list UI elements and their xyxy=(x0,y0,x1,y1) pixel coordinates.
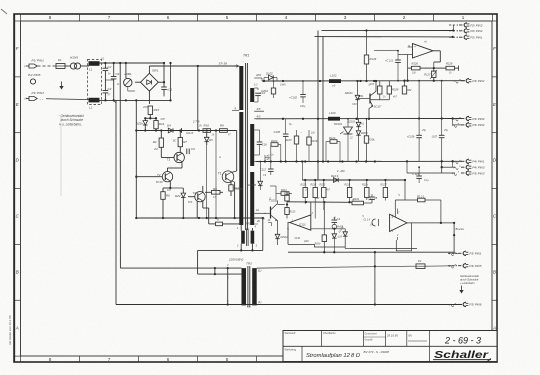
resistor R10 xyxy=(203,124,211,133)
capacitor C16 right of TR1 xyxy=(254,130,267,155)
vertical right x454.1 Bruecke xyxy=(453,223,464,253)
wire bridge left xyxy=(135,63,141,82)
ruler numbers 8-1 xyxy=(49,15,465,362)
wire x454 to P3PIN1 xyxy=(454,252,458,254)
wire opamp plus input xyxy=(408,46,413,48)
transformer TR1 secondary winding a xyxy=(250,88,254,102)
line y180 sub-bus xyxy=(302,179,406,200)
wire TR1 to T102 xyxy=(260,213,266,220)
wire vertical x197.8 xyxy=(197,65,199,131)
wire R8 node down xyxy=(215,131,217,219)
vertical x321.5 top xyxy=(318,31,322,37)
TR2 pin4 wire xyxy=(252,225,257,231)
zener DZ104 xyxy=(356,131,368,162)
resistor R128 xyxy=(434,62,459,71)
taps a6 a5 xyxy=(265,154,270,162)
main bus y161.5 xyxy=(256,160,462,163)
wire R15 to node xyxy=(149,115,151,119)
wire x234.6 T1 emitter to rail xyxy=(231,181,235,218)
wire R7 to T3 xyxy=(179,147,181,153)
wire P1/PIN3 to filter xyxy=(46,99,100,100)
wire x116 top join xyxy=(114,100,116,103)
bottom block wires xyxy=(345,248,417,250)
capacitor C9 xyxy=(180,147,195,154)
connector P1/PIN1 xyxy=(25,58,45,68)
transformer TR3 label xyxy=(246,261,252,265)
capacitor C10 right of TR1 xyxy=(254,88,265,102)
zener DZ102 xyxy=(338,225,347,248)
wire lamp to filter xyxy=(81,65,89,67)
zener DZ119 under column xyxy=(332,229,343,252)
wire bridge bottom to R15 xyxy=(148,91,151,104)
resistor R112 xyxy=(276,189,292,202)
wire T2 collector up xyxy=(168,168,171,173)
line filter L1 dashed box xyxy=(88,60,102,105)
wire bracket P4P3 pin4 xyxy=(451,117,454,125)
zener diode DZ2 xyxy=(169,187,185,219)
opamp2 power pins xyxy=(396,209,398,241)
vertical x314.5 drop xyxy=(314,37,316,40)
vertical x440.9 xyxy=(440,200,442,223)
diode D102 xyxy=(264,72,277,82)
capacitor TB xyxy=(369,194,377,200)
vertical link x214.9 xyxy=(214,268,216,274)
wire y194 stub xyxy=(367,193,372,195)
connector P4/PIN3 xyxy=(454,165,485,170)
long vertical x318 xyxy=(317,31,319,181)
wire R110 top xyxy=(286,192,288,196)
left frame emphasis xyxy=(14,14,16,362)
transformer TR2 core xyxy=(246,229,248,247)
TR3 secondary top (1) xyxy=(257,268,460,272)
connector P3/PIN5 xyxy=(448,264,482,269)
resistor R9 xyxy=(203,186,220,194)
connector P2/PIN1 xyxy=(449,35,483,40)
wire top bus drop to bridge xyxy=(158,62,165,82)
label 27B xyxy=(192,120,200,124)
resistor R14 xyxy=(154,118,165,130)
transformer TR1 core xyxy=(246,63,248,230)
chassis ground arrow xyxy=(59,82,63,90)
note Gehaeusekontakt right xyxy=(460,274,479,285)
resistor R15 xyxy=(148,106,159,115)
label 9 primary tap xyxy=(232,107,239,111)
wire T102 collector to R110R113 node xyxy=(278,201,285,205)
title block grid xyxy=(283,331,497,362)
TR1 tap 4/5 lower wire to L103 bus xyxy=(254,115,261,119)
wire to opamp from T101 xyxy=(374,51,398,55)
wire y173 line xyxy=(407,161,455,173)
long vertical x114 xyxy=(114,63,116,305)
resistor R122 col xyxy=(320,180,327,210)
transistor T2 xyxy=(157,172,173,182)
zener diode DZ103 xyxy=(345,80,360,120)
wire collector node y99.8 xyxy=(371,99,390,101)
thyristor TW101 xyxy=(333,118,352,162)
capacitor C102 xyxy=(289,80,306,103)
wire R9 to T1 xyxy=(220,180,223,192)
transistor T102 xyxy=(264,199,278,224)
wire D5 to rail xyxy=(206,145,208,218)
zener DZ110 xyxy=(275,223,288,245)
top line y37 xyxy=(315,36,454,38)
resistor R101 lower xyxy=(352,197,372,205)
capacitor C2 xyxy=(103,63,112,76)
connector P4/PIN2 xyxy=(454,79,485,84)
transistor T101 xyxy=(357,80,377,110)
bus y268 TR3 right to fuse xyxy=(257,266,411,268)
connector P1/PIN5 xyxy=(28,73,41,84)
resistor R101 under D102 xyxy=(261,80,275,98)
transistor T4 xyxy=(183,191,205,202)
wire T102 col up xyxy=(270,186,276,190)
wire feedback to TR2 pin1 xyxy=(209,218,242,231)
resistor R125 col xyxy=(301,180,308,204)
resistor R120 col xyxy=(362,180,373,201)
resistor R4 xyxy=(153,131,164,148)
long vertical x126 stub xyxy=(125,63,127,100)
wire left drop x298 xyxy=(297,230,299,252)
vertical x441.7 xyxy=(441,80,443,136)
wire x302 bus drop xyxy=(301,162,303,181)
transformer TR1 primary winding xyxy=(239,66,243,225)
wire P1/PIN5 to chassis xyxy=(36,81,62,83)
wire emitter down x369 xyxy=(368,110,370,120)
TR2 pin2 wire xyxy=(236,244,241,251)
drawing frame inner border xyxy=(21,21,493,356)
wire P1/PIN1 to fuse xyxy=(38,65,57,67)
resistor R121 top xyxy=(395,194,441,217)
paper crease line xyxy=(60,116,62,196)
resistor R104 left xyxy=(271,139,281,162)
resistor R129 xyxy=(364,29,376,81)
zener DZ101 xyxy=(346,119,360,130)
resistor R109 xyxy=(307,130,318,162)
opamp IC101 pointing left xyxy=(290,213,314,230)
TR3 pin3 wire xyxy=(198,273,242,280)
wire fuse to lamp xyxy=(65,65,70,67)
wire T2 emitter down xyxy=(163,181,170,192)
resistor R124 xyxy=(326,136,341,162)
wire C2-C3 mid node xyxy=(105,76,113,86)
connector P4/PIN4 xyxy=(454,116,485,121)
component column x334 xyxy=(332,217,344,229)
TR1 tap 4/5 upper xyxy=(254,107,264,111)
wire T4 collector up xyxy=(203,186,210,193)
TR1 tap to T102 line xyxy=(254,208,260,213)
resistor R111 right xyxy=(402,80,412,100)
vertical x262.8 right of TR2 xyxy=(262,218,264,250)
resistor R108 xyxy=(387,81,399,100)
TR3 pin2 wire xyxy=(120,263,241,269)
capacitor C3 xyxy=(103,86,112,100)
opamp N102 xyxy=(390,213,407,238)
wire opamp1 bottom input xyxy=(311,228,345,230)
opamp1 output wire xyxy=(288,223,315,245)
resistor R12 under T1 xyxy=(228,181,240,196)
wire opamp2 out right xyxy=(412,222,456,224)
resistor R7 xyxy=(178,131,187,147)
capacitor C112 xyxy=(260,162,274,176)
resistor R103 xyxy=(285,130,303,162)
resistor R110 xyxy=(284,192,290,205)
wire base T2 from rail xyxy=(136,176,162,178)
corner fold mark top-left xyxy=(1,9,7,14)
wire bridge top to transformer xyxy=(149,66,239,73)
wire T1 collector from rail xyxy=(231,131,237,173)
neon lamp H1N5 xyxy=(70,56,81,70)
capacitor C121 xyxy=(385,50,401,82)
line y202 R110 to R101 xyxy=(287,201,352,204)
wire top bus y63 xyxy=(100,62,165,64)
title Stromlaufplan 128 D xyxy=(306,353,360,359)
wire x440.9 lower drop xyxy=(440,252,442,266)
TR1 lower tap labels xyxy=(254,219,260,224)
transformer TR2 left winding xyxy=(241,231,245,244)
diode D5 xyxy=(204,132,213,145)
wire minus input feedback xyxy=(398,51,413,68)
component value annotations xyxy=(101,58,452,232)
filter choke L1 bottom winding xyxy=(89,98,100,110)
capacitor C4 xyxy=(111,63,120,100)
fuse F1 xyxy=(56,58,65,69)
capacitor C119 xyxy=(413,166,422,187)
transformer TR1 label xyxy=(243,54,249,58)
resistor R113 xyxy=(285,203,296,218)
bottom bus y304.5 xyxy=(116,303,462,305)
wire y167.2 line xyxy=(441,160,455,173)
transformer TR1 secondary winding b xyxy=(250,124,254,166)
long vertical x120.4 xyxy=(119,63,121,268)
note Gehaeusekontakt left xyxy=(59,114,84,127)
trimmer R127 top xyxy=(424,70,437,82)
ruler letters F-A xyxy=(15,46,497,330)
label C110 xyxy=(294,237,309,243)
top line y30.5 xyxy=(322,29,455,31)
capacitor C105 xyxy=(274,119,289,162)
resistor R6 xyxy=(161,192,170,219)
label 57/56 arrow xyxy=(219,62,238,68)
capacitor C1 xyxy=(161,81,172,96)
zener diode DZ1 xyxy=(136,118,148,130)
wire x288 down xyxy=(287,244,289,252)
connector P2/PIN3 xyxy=(449,23,483,31)
ruler tick marks left and right xyxy=(14,21,497,356)
resistor R127 col xyxy=(381,180,388,201)
vertical x419.1 xyxy=(418,80,420,136)
TR3 pin5 wire xyxy=(227,299,242,306)
transformer TR3 core xyxy=(248,266,250,308)
connector P3/PIN1 xyxy=(448,251,482,256)
vertical from TR2 bottom left xyxy=(197,250,199,274)
TR1 tap to bus y161.5 xyxy=(254,161,265,163)
transformer TR2 label xyxy=(246,222,252,226)
inductor L103 xyxy=(328,111,340,121)
document number BV 273-S-04008 xyxy=(364,350,390,354)
transformer TR1 secondary winding c xyxy=(250,172,254,225)
connector P3/PIN6 xyxy=(448,302,482,307)
wire bottom bus y100.4 xyxy=(100,99,171,101)
bottom rail y218 xyxy=(136,217,264,219)
TR2 pin3 wire xyxy=(251,244,257,252)
drawing number 2-69-3 xyxy=(444,336,481,346)
wire T4 base xyxy=(188,196,195,198)
connector P2/PIN2 xyxy=(449,29,483,33)
bus y119 L103 line xyxy=(256,117,462,120)
transformer TR2 right winding xyxy=(251,231,255,244)
capacitor C106 xyxy=(407,135,422,162)
resistor R8 xyxy=(220,124,228,133)
resistor R104 mid xyxy=(364,118,375,163)
opamp2 feedback box xyxy=(396,223,411,251)
node line DZ1 R14 xyxy=(144,117,157,119)
ground arrow right xyxy=(459,286,463,294)
resistor R115 col xyxy=(311,180,318,219)
opamp output wire xyxy=(433,51,441,72)
bridge rectifier GR1 xyxy=(141,69,159,92)
resistor R107 xyxy=(367,81,382,100)
wire opamp1 top input xyxy=(310,202,312,216)
wire T4 bottom to rail xyxy=(197,201,199,218)
margin handwriting left xyxy=(8,315,12,345)
filter choke L1 top winding xyxy=(89,61,100,71)
transformer TR3 right winding xyxy=(252,268,257,305)
transistor T3 xyxy=(161,147,184,162)
left rail x137 xyxy=(135,99,137,219)
lower long wire y252.2 xyxy=(288,251,454,253)
wire y244 to 247 xyxy=(315,244,346,247)
connector P4/PIN1 xyxy=(454,159,485,164)
varistor DB1 xyxy=(124,63,132,87)
wire varistor stub xyxy=(126,63,135,91)
resistor R119 col xyxy=(345,180,355,202)
capacitor C107 xyxy=(432,135,445,162)
vertical x170.5 xyxy=(169,62,171,102)
connector P3/PIN3 xyxy=(452,171,484,176)
opamp N101 xyxy=(408,40,433,59)
capacitor C115 on line xyxy=(363,219,378,227)
long vertical x323 xyxy=(322,36,324,162)
resistor R106 low xyxy=(315,202,327,252)
TR2 bottom line xyxy=(198,249,263,251)
regulator top rail y130.5 xyxy=(136,129,236,131)
bus y81 from TR1 to right xyxy=(262,80,465,82)
inductor L102 xyxy=(329,74,341,84)
vertical x374.9 lower xyxy=(374,251,376,304)
TR1 tap A/W xyxy=(254,73,262,81)
transformer TR3 left winding xyxy=(242,268,247,305)
resistor R126 xyxy=(406,62,433,82)
wire T3 emitter down xyxy=(168,162,183,171)
label 220V(36V) xyxy=(228,258,243,262)
bus y124.9 P3PIN4 line xyxy=(453,124,462,126)
wire T4 emitter to feedback xyxy=(203,201,209,224)
vertical link x227.7 xyxy=(227,268,229,304)
connector P1/PIN3 xyxy=(25,91,45,101)
wire y235 stub xyxy=(446,234,454,236)
fuse F2 xyxy=(411,259,455,269)
diode D104 on y180 xyxy=(331,169,345,183)
label 1b lower xyxy=(268,219,272,226)
diode D7 xyxy=(178,128,182,133)
transistor T1 xyxy=(218,171,234,183)
connector P3/PIN4 xyxy=(452,123,484,128)
diode D4 xyxy=(167,124,173,133)
junction dots on filter buses xyxy=(104,62,127,102)
Schaller logo xyxy=(433,350,491,362)
zener DZ108 xyxy=(248,161,263,190)
TR3 secondary bottom (1) xyxy=(258,300,261,304)
